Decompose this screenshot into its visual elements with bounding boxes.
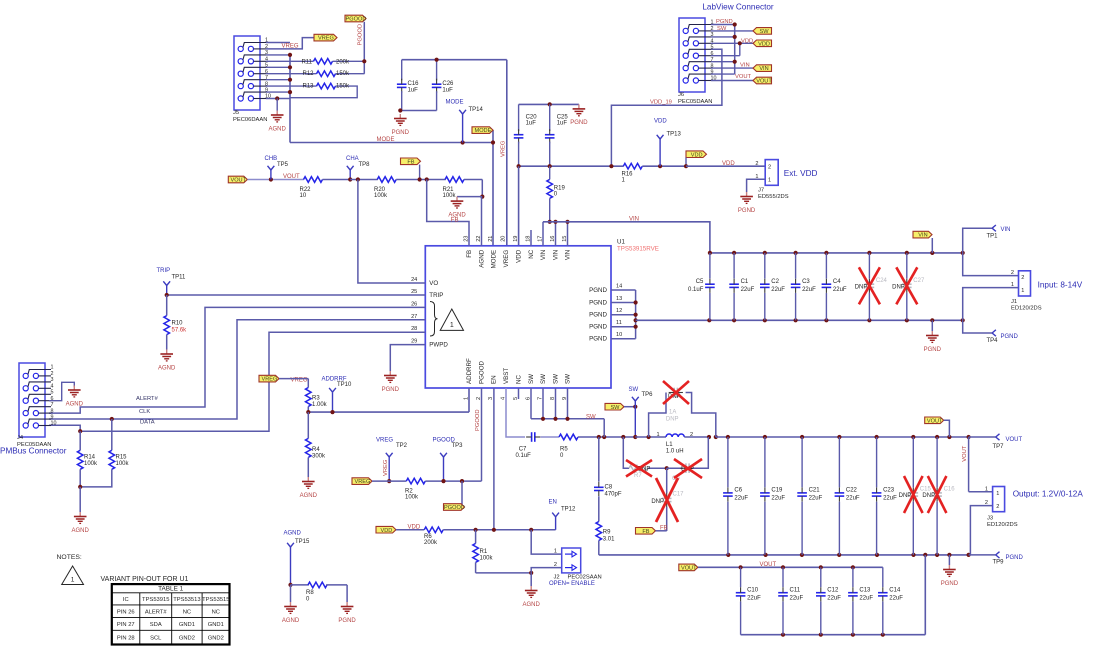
svg-text:FB: FB xyxy=(642,529,649,535)
svg-text:C13: C13 xyxy=(859,588,871,594)
connector J2 PEC02SAAN xyxy=(549,548,602,587)
svg-text:GND1: GND1 xyxy=(208,622,224,628)
svg-text:AGND: AGND xyxy=(479,249,486,267)
svg-text:Input: 8-14V: Input: 8-14V xyxy=(1038,281,1083,290)
svg-text:7: 7 xyxy=(51,402,54,408)
svg-text:R3: R3 xyxy=(312,396,320,402)
wire to J1 pin1 xyxy=(963,282,1019,320)
flag SW xyxy=(605,403,637,410)
wire VDD_19 xyxy=(611,49,722,166)
wire ADDRRF node to U1 pin1 xyxy=(306,388,469,414)
wire input bottom rail xyxy=(636,318,965,322)
svg-text:PEC05DAAN: PEC05DAAN xyxy=(678,99,712,105)
svg-text:FB: FB xyxy=(660,525,668,531)
svg-text:SW: SW xyxy=(528,374,535,384)
wire VREG net to U1 pin 20 xyxy=(501,60,507,246)
svg-text:C6: C6 xyxy=(734,488,742,494)
svg-text:FB: FB xyxy=(451,217,459,223)
svg-text:VOUT: VOUT xyxy=(962,445,968,462)
svg-text:57.6k: 57.6k xyxy=(172,328,188,334)
svg-text:1: 1 xyxy=(51,365,54,371)
svg-text:VDD_19: VDD_19 xyxy=(650,100,672,106)
label NOTES xyxy=(57,554,82,561)
svg-text:12: 12 xyxy=(616,308,622,314)
svg-text:AGND: AGND xyxy=(269,126,287,132)
label J7 xyxy=(758,188,789,201)
svg-text:J6: J6 xyxy=(678,92,684,98)
svg-text:SW: SW xyxy=(553,374,560,384)
svg-text:1: 1 xyxy=(656,432,659,438)
svg-text:PEC06DAAN: PEC06DAAN xyxy=(233,117,267,123)
capacitor C20 xyxy=(514,104,537,166)
svg-text:PGND: PGND xyxy=(589,336,607,343)
ground AGND J5 xyxy=(269,96,287,132)
svg-text:VIN: VIN xyxy=(553,250,560,260)
connector J5 PEC06DAAN xyxy=(233,36,271,123)
svg-text:VDD: VDD xyxy=(516,249,523,263)
svg-text:TP12: TP12 xyxy=(561,507,576,513)
connector J4 PEC05DAAN xyxy=(17,363,57,448)
label VARIANT PIN-OUT xyxy=(101,576,189,583)
wire MODE net xyxy=(290,130,495,246)
svg-text:TABLE 1: TABLE 1 xyxy=(158,586,184,593)
svg-text:J2: J2 xyxy=(554,575,560,581)
svg-text:VDD: VDD xyxy=(654,119,667,125)
svg-text:1: 1 xyxy=(1021,288,1024,294)
svg-text:MODE: MODE xyxy=(377,137,395,143)
test point TP10 ADDRRF xyxy=(322,377,353,413)
svg-text:22uF: 22uF xyxy=(846,496,860,502)
svg-text:PGND: PGND xyxy=(738,208,756,214)
connector J1 ED120/2DS xyxy=(1011,271,1083,312)
svg-text:NOTES:: NOTES: xyxy=(57,554,82,561)
capacitor C27 DNP xyxy=(892,253,925,320)
wire C7 to R5 xyxy=(540,436,559,438)
svg-text:J1: J1 xyxy=(1011,299,1017,305)
wire R21 to AGND / U1 pin22 xyxy=(457,180,484,246)
ground AGND J4 xyxy=(66,386,84,408)
svg-text:ALERT#: ALERT# xyxy=(136,396,159,402)
label LabView Connector xyxy=(702,3,774,12)
ground PGND C20/C25 xyxy=(570,104,588,126)
svg-text:VOUT: VOUT xyxy=(756,79,772,85)
svg-text:C23: C23 xyxy=(883,488,895,494)
svg-text:VREG: VREG xyxy=(355,479,371,485)
svg-text:PGND: PGND xyxy=(589,287,607,294)
svg-text:22uF: 22uF xyxy=(889,596,903,602)
capacitor C1 xyxy=(729,253,754,320)
svg-text:VOUT: VOUT xyxy=(1006,437,1023,443)
svg-text:VREG: VREG xyxy=(282,43,299,49)
wire U1 PGOOD down xyxy=(475,388,482,481)
svg-text:PGND: PGND xyxy=(924,347,942,353)
svg-text:25: 25 xyxy=(411,289,417,295)
svg-text:1.0 uH: 1.0 uH xyxy=(666,449,684,455)
svg-text:22uF: 22uF xyxy=(734,496,748,502)
svg-text:TP6: TP6 xyxy=(642,392,654,398)
wire J6 VDD / flag VDD xyxy=(711,38,772,55)
svg-text:VOUT: VOUT xyxy=(735,74,752,80)
svg-text:TP2: TP2 xyxy=(396,443,408,449)
svg-text:MODE: MODE xyxy=(446,100,464,106)
capacitor C25 xyxy=(545,104,568,166)
ground PGND PWPD xyxy=(382,371,400,393)
svg-text:DNP: DNP xyxy=(922,493,935,499)
svg-text:TP3: TP3 xyxy=(452,443,464,449)
svg-text:VDD: VDD xyxy=(408,524,421,530)
svg-text:1: 1 xyxy=(450,322,454,329)
ground PGND J7 xyxy=(738,192,756,214)
svg-text:SW: SW xyxy=(629,387,639,393)
svg-text:R14: R14 xyxy=(84,455,96,461)
resistor R7 DNP xyxy=(621,435,667,479)
resistor R14 xyxy=(77,431,98,487)
wire J6 VIN / flag VIN xyxy=(711,63,772,73)
svg-text:22uF: 22uF xyxy=(771,287,785,293)
wire VOUT subrow top xyxy=(698,562,883,569)
svg-text:150k: 150k xyxy=(336,83,350,89)
svg-text:C22: C22 xyxy=(846,488,858,494)
svg-text:C15: C15 xyxy=(920,487,932,493)
resistor R22 xyxy=(300,177,351,200)
flag PGOOD xyxy=(345,15,366,73)
svg-text:C11: C11 xyxy=(790,588,801,594)
wire input top rail xyxy=(708,251,965,255)
svg-text:Output: 1.2V/0-12A: Output: 1.2V/0-12A xyxy=(1013,490,1084,499)
flag VREG addr xyxy=(259,375,308,383)
svg-text:AGND: AGND xyxy=(72,528,90,534)
svg-text:24: 24 xyxy=(411,277,417,283)
resistor R13 xyxy=(290,83,357,97)
svg-text:FB: FB xyxy=(466,250,473,258)
capacitor C4 xyxy=(822,253,847,320)
resistor R1 xyxy=(473,528,494,573)
svg-text:22uF: 22uF xyxy=(771,496,785,502)
svg-text:C4: C4 xyxy=(833,279,841,285)
svg-text:R7: R7 xyxy=(634,473,642,479)
svg-text:1: 1 xyxy=(1011,282,1014,288)
label PMBus Connector xyxy=(0,447,67,456)
svg-text:PIN 27: PIN 27 xyxy=(117,622,135,628)
flag VREG xyxy=(314,34,337,41)
svg-text:AGND: AGND xyxy=(284,531,302,537)
resistor R4 xyxy=(306,412,327,477)
svg-text:C24: C24 xyxy=(876,278,888,284)
svg-text:EN: EN xyxy=(549,499,557,505)
capacitor C3 xyxy=(791,253,816,320)
wire VREG from J5 pin 2 xyxy=(266,38,314,50)
wire other U1 top pins up xyxy=(519,230,532,399)
svg-text:NC: NC xyxy=(212,609,220,615)
flag VOUT out xyxy=(925,417,950,437)
resistor R20 xyxy=(374,177,446,200)
svg-text:TP4: TP4 xyxy=(987,338,999,344)
svg-text:9: 9 xyxy=(51,414,54,420)
svg-text:DNP: DNP xyxy=(666,417,679,423)
svg-text:TP14: TP14 xyxy=(469,107,484,113)
svg-text:0.1uF: 0.1uF xyxy=(516,453,532,459)
wire DATA to U1 pin28 xyxy=(49,332,425,433)
svg-text:VREG: VREG xyxy=(383,459,389,476)
svg-text:VREG: VREG xyxy=(376,437,393,443)
svg-text:SW: SW xyxy=(610,405,620,411)
wire R8 right PGND xyxy=(346,585,348,602)
resistor R15 xyxy=(80,419,129,487)
svg-text:1: 1 xyxy=(71,577,75,584)
note triangle 1 xyxy=(62,566,84,585)
svg-text:TP10: TP10 xyxy=(337,382,352,388)
flag VDD at TP13 xyxy=(684,151,707,168)
ground AGND R10 xyxy=(158,350,176,372)
capacitor C12 xyxy=(816,567,841,634)
svg-text:VOUT: VOUT xyxy=(760,562,777,568)
svg-text:U1: U1 xyxy=(617,239,625,246)
wire output bottom rail xyxy=(599,553,971,557)
svg-text:ALERT#: ALERT# xyxy=(145,609,168,615)
svg-text:C26: C26 xyxy=(442,81,454,87)
svg-text:SW: SW xyxy=(717,26,727,32)
svg-text:C14: C14 xyxy=(889,588,901,594)
svg-text:470pF: 470pF xyxy=(605,492,622,498)
test point TP6 SW xyxy=(629,387,654,439)
svg-text:TPS53915RVE: TPS53915RVE xyxy=(617,246,659,253)
wire CHA node to U1 VO xyxy=(350,177,425,283)
svg-text:1: 1 xyxy=(768,178,771,184)
svg-text:1: 1 xyxy=(554,548,557,554)
svg-text:5: 5 xyxy=(51,390,54,396)
svg-text:VARIANT PIN-OUT FOR U1: VARIANT PIN-OUT FOR U1 xyxy=(101,576,189,583)
svg-text:200k: 200k xyxy=(424,540,438,546)
wire to J3 pin2 xyxy=(970,500,992,555)
svg-text:PWPD: PWPD xyxy=(429,342,448,349)
flag VDD en xyxy=(376,526,396,533)
svg-text:R1: R1 xyxy=(480,549,488,555)
flag VIN input xyxy=(913,231,932,253)
svg-text:ED120/2DS: ED120/2DS xyxy=(1011,306,1042,312)
svg-text:J3: J3 xyxy=(987,516,993,522)
svg-text:R6: R6 xyxy=(424,534,432,540)
svg-text:29: 29 xyxy=(411,339,417,345)
svg-text:PGND: PGND xyxy=(392,130,410,136)
svg-text:10: 10 xyxy=(616,332,622,338)
svg-text:2: 2 xyxy=(1011,270,1014,276)
wire J7 pin1 to PGND xyxy=(747,179,766,192)
svg-text:R11: R11 xyxy=(301,60,312,66)
svg-text:J4: J4 xyxy=(17,435,24,441)
svg-text:VOUT: VOUT xyxy=(230,178,246,184)
svg-text:SW: SW xyxy=(565,374,572,384)
svg-text:DATA: DATA xyxy=(140,420,155,426)
svg-text:28: 28 xyxy=(411,326,417,332)
svg-text:2: 2 xyxy=(768,165,771,171)
capacitor C2 xyxy=(760,253,785,320)
ground PGND R8 xyxy=(338,602,356,624)
resistor R9 xyxy=(596,522,615,555)
svg-text:26: 26 xyxy=(411,301,417,307)
svg-text:SW: SW xyxy=(586,414,596,420)
wire VOUT row xyxy=(248,174,304,181)
svg-text:TPS53513: TPS53513 xyxy=(173,597,200,603)
svg-text:PMBus Connector: PMBus Connector xyxy=(0,447,67,456)
flag FB top xyxy=(401,158,422,182)
svg-text:C21: C21 xyxy=(809,488,821,494)
svg-text:100k: 100k xyxy=(116,461,130,467)
svg-text:PGND: PGND xyxy=(941,581,959,587)
svg-text:C5: C5 xyxy=(696,279,704,285)
svg-text:100k: 100k xyxy=(405,495,419,501)
svg-text:C20: C20 xyxy=(526,115,538,121)
capacitor C5 xyxy=(688,253,715,320)
svg-text:22uF: 22uF xyxy=(790,596,804,602)
capacitor DNP bridge above L1 xyxy=(649,381,716,437)
svg-text:22uF: 22uF xyxy=(809,496,823,502)
connector J3 ED120/2DS xyxy=(987,487,1083,529)
svg-text:TP11: TP11 xyxy=(172,275,187,281)
svg-text:1: 1 xyxy=(996,491,999,497)
capacitor C9 DNP xyxy=(665,437,709,482)
svg-text:VO: VO xyxy=(429,280,438,287)
wire U1 PGND pins bus xyxy=(611,290,638,339)
svg-text:0.1uF: 0.1uF xyxy=(688,287,704,293)
svg-text:VOUT: VOUT xyxy=(681,566,697,572)
inductor L1 xyxy=(635,432,718,455)
svg-text:NC: NC xyxy=(528,249,535,258)
wire TRIP to U1 pin25 xyxy=(165,293,426,297)
capacitor C22 xyxy=(835,437,860,555)
capacitor C16 DNP out xyxy=(922,437,955,555)
svg-text:C12: C12 xyxy=(827,588,839,594)
wire U1 PWPD to PGND xyxy=(390,345,425,371)
svg-text:200k: 200k xyxy=(336,60,350,66)
svg-text:FB: FB xyxy=(407,159,414,165)
wire VIN net xyxy=(543,216,710,253)
svg-text:TP15: TP15 xyxy=(295,539,310,545)
svg-text:C2: C2 xyxy=(771,279,779,285)
resistor R19 xyxy=(547,166,566,222)
svg-text:AGND: AGND xyxy=(282,618,300,624)
svg-text:GND2: GND2 xyxy=(179,636,195,642)
flag FB bottom xyxy=(636,525,668,535)
test point TP9 PGND xyxy=(969,552,1024,566)
resistor R10 xyxy=(164,295,187,350)
wire J5 bus / node MODE xyxy=(288,53,292,143)
capacitor C13 xyxy=(848,567,873,634)
resistor R2 xyxy=(372,478,482,500)
svg-text:C16: C16 xyxy=(408,81,420,87)
wire U1 EN down xyxy=(492,388,496,532)
svg-text:SCL: SCL xyxy=(150,636,162,642)
svg-text:22uF: 22uF xyxy=(747,596,761,602)
wire U1 SW pins down xyxy=(531,388,604,437)
resistor R11 xyxy=(290,59,364,66)
svg-text:VIN: VIN xyxy=(629,216,639,222)
svg-text:R8: R8 xyxy=(306,590,314,596)
svg-text:C16: C16 xyxy=(944,487,956,493)
svg-text:20: 20 xyxy=(501,236,507,242)
wire R1 to J2 pin2 and AGND xyxy=(476,568,562,586)
wire VREG cap bottom rail xyxy=(398,108,436,112)
svg-text:PGND: PGND xyxy=(338,618,356,624)
wire VDD to J7 xyxy=(686,161,765,167)
resistor R21 xyxy=(443,177,483,200)
flag VREG R2 xyxy=(352,478,372,485)
svg-text:DNP: DNP xyxy=(892,284,905,290)
capacitor C24 DNP xyxy=(855,253,888,320)
resistor R8 xyxy=(288,582,347,602)
capacitor C16 xyxy=(397,60,419,111)
svg-text:VREG: VREG xyxy=(262,377,278,383)
svg-text:TRIP: TRIP xyxy=(429,292,443,299)
capacitor C19 xyxy=(760,437,785,555)
svg-text:100k: 100k xyxy=(443,193,457,199)
wire to J1 pin2 xyxy=(963,253,1019,276)
svg-text:R21: R21 xyxy=(443,187,455,193)
test point TP4 PGND xyxy=(963,320,1019,344)
ground PGND output xyxy=(941,555,959,587)
svg-text:C7: C7 xyxy=(519,446,527,452)
svg-text:C3: C3 xyxy=(802,279,810,285)
wire U1 VBST to C7 xyxy=(506,388,525,437)
svg-text:1.00k: 1.00k xyxy=(312,402,328,408)
svg-text:VREG: VREG xyxy=(318,36,334,42)
svg-text:VDD: VDD xyxy=(691,152,703,158)
svg-text:VIN: VIN xyxy=(918,233,927,239)
connector J6 PEC05DAAN xyxy=(678,18,717,105)
resistor R12 xyxy=(290,71,365,77)
svg-text:PGND: PGND xyxy=(589,312,607,319)
svg-text:R20: R20 xyxy=(374,187,386,193)
svg-text:C10: C10 xyxy=(747,588,759,594)
svg-text:PGND: PGND xyxy=(589,324,607,331)
svg-text:150k: 150k xyxy=(336,71,350,77)
svg-text:R13: R13 xyxy=(302,83,314,89)
table TABLE 1 xyxy=(112,584,230,644)
wire to J3 pin1 xyxy=(962,437,993,492)
svg-text:C1: C1 xyxy=(741,279,749,285)
svg-text:27: 27 xyxy=(411,314,417,320)
svg-text:1uF: 1uF xyxy=(408,87,419,93)
capacitor C10 xyxy=(736,567,761,634)
svg-text:22uF: 22uF xyxy=(859,596,873,602)
flag VOUT subrow xyxy=(679,564,698,571)
ground AGND R4 xyxy=(300,477,318,499)
test point TP12 EN xyxy=(549,499,577,529)
svg-text:LabView Connector: LabView Connector xyxy=(702,3,774,12)
svg-text:3: 3 xyxy=(488,397,494,400)
svg-text:EN: EN xyxy=(491,375,498,384)
svg-text:10: 10 xyxy=(300,193,307,199)
svg-text:R12: R12 xyxy=(302,71,314,77)
svg-text:DNP: DNP xyxy=(899,493,912,499)
svg-text:TRIP: TRIP xyxy=(157,268,171,274)
svg-text:100k: 100k xyxy=(374,193,388,199)
svg-text:PGND: PGND xyxy=(1001,334,1019,340)
svg-text:CHA: CHA xyxy=(346,156,359,162)
svg-text:ADDRRF: ADDRRF xyxy=(466,358,473,384)
svg-text:PGOOD: PGOOD xyxy=(346,17,367,23)
svg-text:10: 10 xyxy=(51,421,57,427)
svg-text:TP8: TP8 xyxy=(359,162,371,168)
svg-text:AGND: AGND xyxy=(300,493,318,499)
svg-text:1uF: 1uF xyxy=(442,87,453,93)
svg-text:VREG: VREG xyxy=(503,250,510,268)
svg-text:ED555/2DS: ED555/2DS xyxy=(758,194,789,200)
svg-text:TP9: TP9 xyxy=(993,560,1005,566)
svg-text:MODE: MODE xyxy=(475,128,492,134)
wire VDD rail xyxy=(517,164,624,246)
svg-text:PGND: PGND xyxy=(1006,555,1024,561)
svg-text:C19: C19 xyxy=(771,488,783,494)
